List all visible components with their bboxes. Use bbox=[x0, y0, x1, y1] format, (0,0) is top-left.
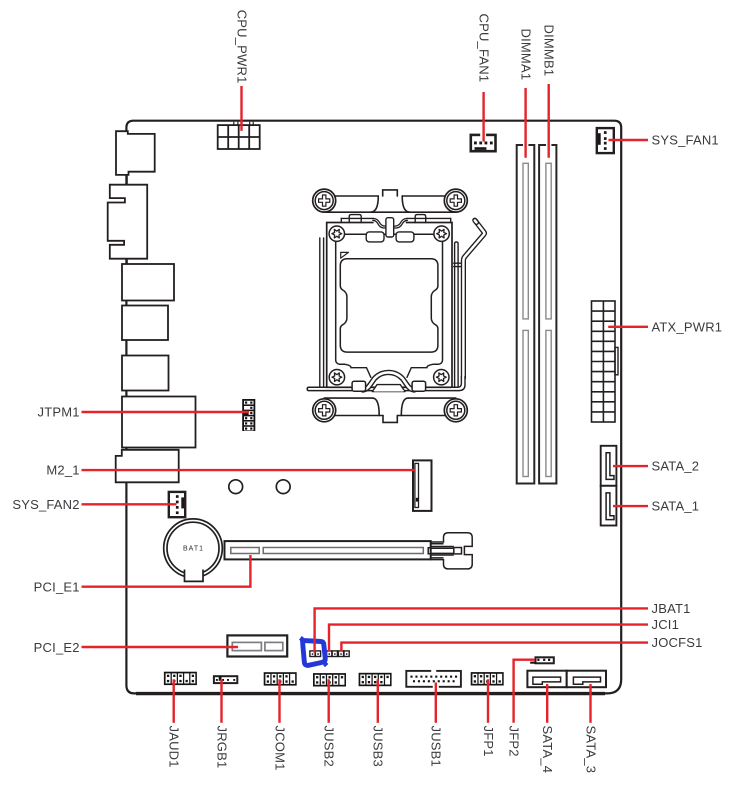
svg-text:M2_1: M2_1 bbox=[46, 463, 79, 478]
svg-text:JFP1: JFP1 bbox=[481, 726, 496, 757]
svg-text:SATA_3: SATA_3 bbox=[583, 726, 598, 774]
svg-text:SATA_2: SATA_2 bbox=[652, 459, 700, 474]
svg-text:ATX_PWR1: ATX_PWR1 bbox=[652, 319, 723, 334]
svg-text:JFP2: JFP2 bbox=[507, 726, 522, 757]
svg-text:DIMMA1: DIMMA1 bbox=[518, 29, 533, 81]
svg-text:SYS_FAN2: SYS_FAN2 bbox=[12, 497, 79, 512]
svg-text:CPU_PWR1: CPU_PWR1 bbox=[234, 10, 249, 84]
svg-text:SATA_4: SATA_4 bbox=[540, 726, 555, 774]
svg-text:JUSB1: JUSB1 bbox=[429, 726, 444, 767]
svg-text:BAT1: BAT1 bbox=[183, 545, 204, 552]
svg-text:JBAT1: JBAT1 bbox=[652, 601, 691, 616]
svg-text:JTPM1: JTPM1 bbox=[38, 405, 80, 420]
svg-text:DIMMB1: DIMMB1 bbox=[542, 25, 557, 77]
svg-text:JUSB2: JUSB2 bbox=[322, 726, 337, 767]
svg-text:SYS_FAN1: SYS_FAN1 bbox=[652, 133, 719, 148]
svg-text:JRGB1: JRGB1 bbox=[214, 726, 229, 769]
svg-text:JOCFS1: JOCFS1 bbox=[652, 635, 703, 650]
svg-text:PCI_E1: PCI_E1 bbox=[34, 579, 80, 594]
svg-text:JCOM1: JCOM1 bbox=[272, 726, 287, 771]
svg-text:JUSB3: JUSB3 bbox=[371, 726, 386, 767]
svg-text:CPU_FAN1: CPU_FAN1 bbox=[476, 14, 491, 83]
svg-text:JCI1: JCI1 bbox=[652, 617, 680, 632]
svg-text:PCI_E2: PCI_E2 bbox=[34, 640, 80, 655]
svg-text:SATA_1: SATA_1 bbox=[652, 499, 700, 514]
svg-text:JAUD1: JAUD1 bbox=[167, 726, 182, 768]
